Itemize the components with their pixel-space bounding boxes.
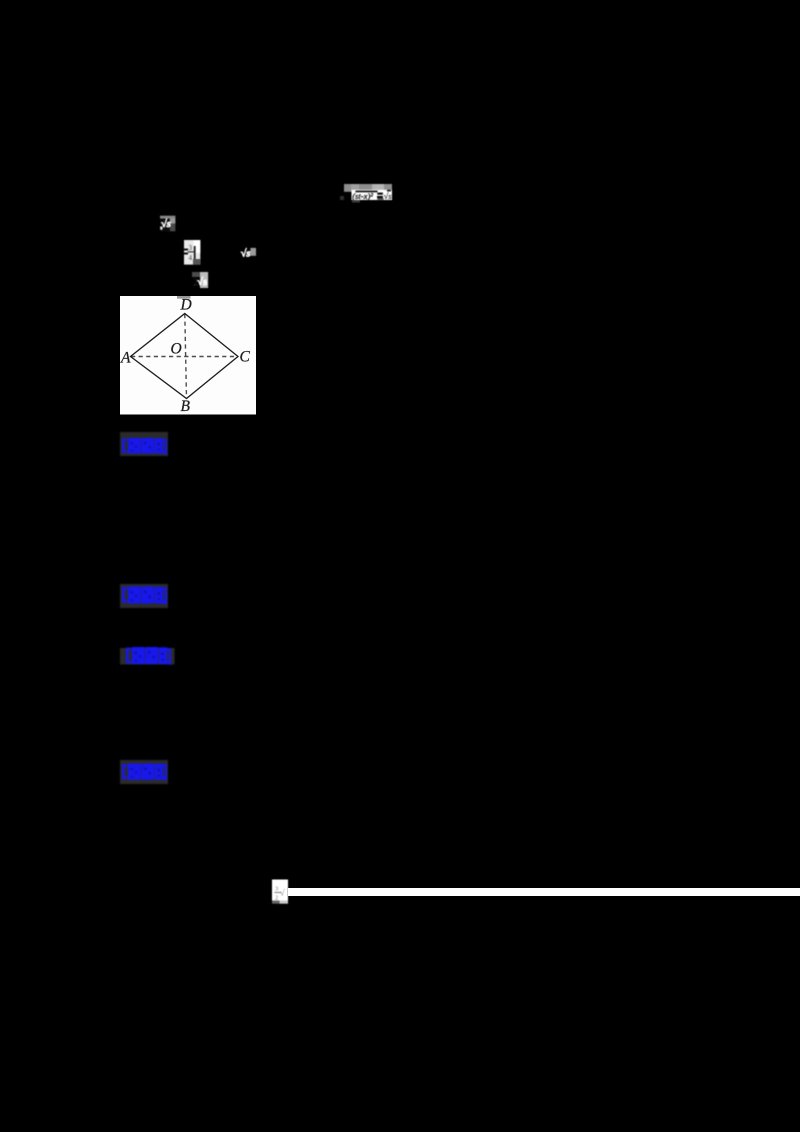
svg-text:3: 3 <box>275 886 278 893</box>
svg-text:3: 3 <box>189 244 193 252</box>
svg-text:√s: √s <box>197 276 207 288</box>
svg-text:C: C <box>240 349 251 366</box>
svg-text:√: √ <box>280 888 285 898</box>
svg-text:4: 4 <box>189 254 193 262</box>
svg-text:D: D <box>180 297 192 314</box>
svg-text:√s: √s <box>384 191 393 201</box>
svg-text:√s: √s <box>241 247 251 258</box>
svg-text:2: 2 <box>275 895 278 902</box>
svg-text:(st-x)²: (st-x)² <box>352 191 373 201</box>
svg-text:O: O <box>171 341 182 358</box>
svg-text:B: B <box>181 398 191 415</box>
svg-text:A: A <box>120 350 131 367</box>
